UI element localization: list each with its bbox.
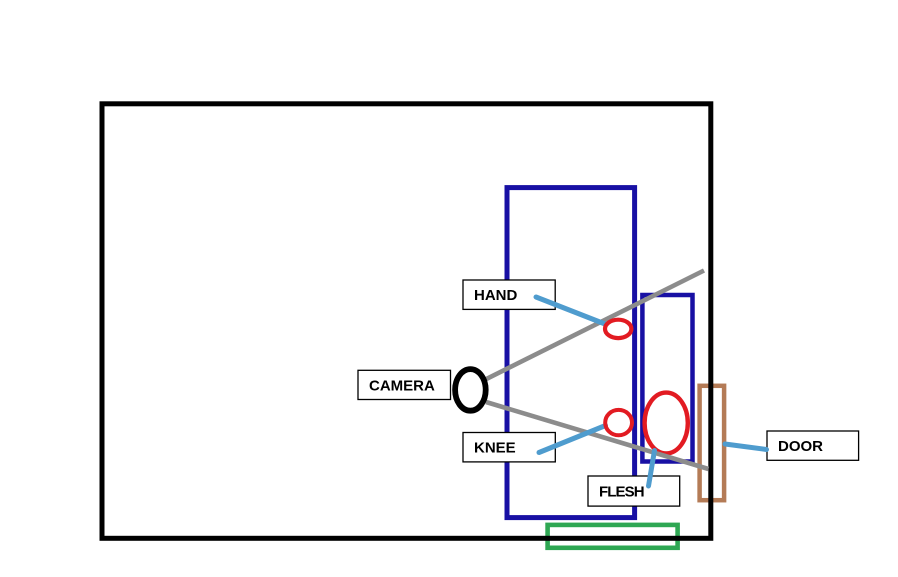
svg-text:CAMERA: CAMERA xyxy=(369,377,435,394)
svg-text:KNEE: KNEE xyxy=(474,440,516,457)
svg-text:FLESH: FLESH xyxy=(599,483,644,500)
svg-text:DOOR: DOOR xyxy=(778,438,823,455)
svg-text:HAND: HAND xyxy=(474,287,517,304)
